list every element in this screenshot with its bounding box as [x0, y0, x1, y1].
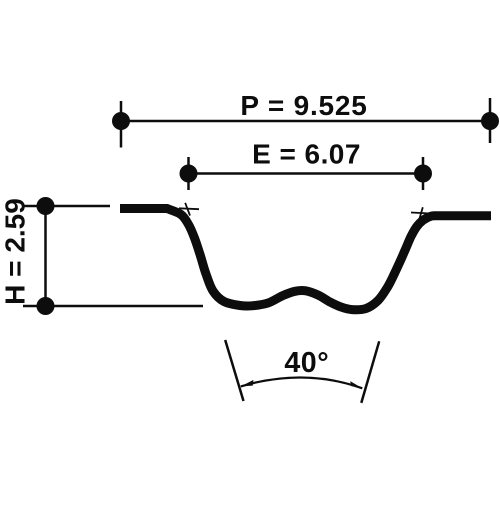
angle 40: left arrowhead: [241, 380, 254, 387]
dimension H: dot top: [37, 197, 55, 215]
tangent tick right: horizontal stroke: [411, 213, 441, 215]
angle 40: right arrowhead: [350, 381, 362, 388]
dimension E: dot left: [180, 165, 198, 183]
svg-text:P = 9.525: P = 9.525: [240, 90, 367, 121]
dimension H: bottom reference line: [23, 305, 203, 308]
dimension P: dot right: [481, 112, 499, 130]
svg-text:H = 2.59: H = 2.59: [0, 198, 31, 305]
svg-text:40°: 40°: [284, 347, 329, 379]
dimension E: extension tick left: [187, 157, 190, 190]
dimension P: extension tick left: [120, 101, 123, 148]
dimension E: extension tick right: [422, 157, 425, 190]
dimension E: line: [189, 172, 424, 175]
svg-text:E = 6.07: E = 6.07: [252, 139, 361, 170]
belt tooth profile curve: [120, 209, 491, 310]
angle 40: left flank extension line: [225, 340, 243, 401]
tangent tick left: flank stroke: [185, 203, 190, 216]
angle 40: right flank extension line: [361, 341, 379, 403]
dimension E: dot right: [414, 165, 432, 183]
angle 40: dimension arc: [241, 378, 362, 389]
dimension H: vertical line: [44, 206, 47, 306]
dimension P: extension tick right: [489, 98, 492, 143]
tangent tick left: horizontal stroke: [179, 207, 199, 210]
tangent tick right: flank stroke: [418, 207, 423, 225]
dimension P: line: [121, 120, 490, 123]
dimension H: dot bottom: [37, 297, 55, 315]
dimension H: top reference line: [23, 205, 110, 208]
dimension P: dot left: [112, 112, 130, 130]
